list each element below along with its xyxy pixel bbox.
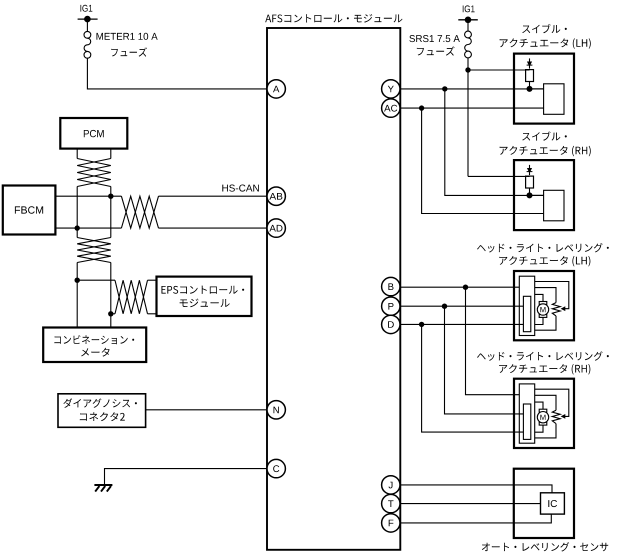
wire pin J to IC: [400, 485, 552, 493]
label auto leveling sensor: [482, 542, 608, 551]
wire motor bottom (RH): [535, 425, 543, 432]
pin AD: [267, 219, 285, 237]
AFS control module U1: [265, 14, 402, 550]
solenoid arrow (RH): [527, 165, 533, 175]
pin Y: [382, 80, 400, 98]
combination meter: [43, 328, 146, 363]
leveling connector outer (RH): [519, 384, 534, 443]
junction AC branch: [419, 105, 424, 110]
potentiometer resistor (LH): [552, 303, 560, 316]
motor block (RH): [544, 190, 564, 221]
pin T: [382, 494, 400, 512]
swivel actuator (LH) box: [514, 54, 574, 124]
wire motor top (LH): [535, 294, 543, 301]
wire CAN-H FBCM to pin AB: [55, 195, 267, 197]
label SRS1 7.5 A fuse: [409, 35, 459, 56]
node IG1 (left power feed): [78, 5, 98, 23]
pin P: [382, 297, 400, 315]
node IG1 (right power feed): [458, 5, 478, 23]
junction CAN-H / PCM pair: [108, 194, 113, 199]
junction B branch: [463, 285, 468, 290]
junction Y branch: [442, 86, 447, 91]
pin J: [382, 476, 400, 494]
wire junction to motor (RH): [530, 194, 544, 196]
pin F: [382, 514, 400, 532]
pin AC: [382, 99, 400, 117]
IC: [541, 493, 565, 514]
pin N: [267, 401, 285, 419]
twisted pair CAN bus down to meter: [77, 238, 111, 328]
wiper arm (LH): [535, 282, 569, 312]
wire D branch to leveling RH: [422, 324, 524, 432]
wire fuse SRS1 down to actuators: [467, 58, 469, 176]
wire motor bottom (LH): [535, 317, 543, 324]
twisted pair PCM to CAN bus: [77, 148, 111, 237]
junction CAN-L / EPS: [108, 311, 113, 316]
twisted pair to EPS module: [115, 280, 148, 314]
wire Y branch to swivel RH motor: [445, 89, 544, 195]
wire potentiometer bottom (RH): [535, 424, 556, 438]
wire diagnosis connector to pin N: [146, 409, 267, 411]
pin B: [382, 277, 400, 295]
motor M (RH): [537, 409, 548, 425]
wire CAN-L to EPS: [111, 313, 157, 315]
label head light leveling actuator LH: [477, 243, 609, 266]
leveling connector outer (LH): [519, 276, 534, 335]
solenoid resistor (LH): [526, 70, 534, 82]
PCM: [60, 118, 127, 149]
wire solenoid to motor junction (RH): [529, 188, 531, 195]
motor block (LH): [544, 84, 564, 115]
junction solenoid/motor (RH): [527, 192, 533, 198]
diagnosis connector 2: [58, 394, 146, 428]
fuse METER1 10 A: [84, 31, 91, 58]
wire fuse METER1 to pin A: [87, 58, 267, 89]
wiper arm (RH): [535, 389, 569, 419]
wire P branch to leveling RH: [445, 306, 524, 414]
label swivel actuator LH: [500, 24, 591, 49]
twisted pair CAN bus to module: [121, 196, 158, 228]
fuse SRS1 7.5 A: [465, 31, 472, 58]
wire fuse branch to swivel LH solenoid: [468, 69, 530, 71]
wire IG1 to fuse METER1: [86, 19, 88, 31]
wire junction to motor (LH): [530, 88, 544, 90]
wire fuse branch to swivel RH solenoid: [468, 175, 530, 177]
wire potentiometer bottom (LH): [535, 316, 556, 330]
label HS-CAN: [222, 185, 259, 192]
pin AB: [267, 187, 285, 205]
leveling connector inner (RH): [523, 404, 530, 439]
label swivel actuator RH: [500, 131, 591, 156]
swivel actuator (RH) box: [514, 160, 574, 230]
wire pin T to IC: [400, 503, 541, 505]
auto leveling sensor box: [514, 469, 574, 538]
junction CAN-L / PCM pair: [75, 225, 80, 230]
wire pin D to leveling LH: [400, 323, 523, 325]
wire motor top (RH): [535, 402, 543, 409]
wire AC branch to swivel RH motor: [422, 108, 544, 213]
wire pin C to ground: [105, 469, 267, 485]
pin C: [267, 459, 285, 477]
label head light leveling actuator RH: [477, 351, 609, 374]
wire pin B to leveling LH: [400, 286, 519, 288]
label METER1 10 A fuse: [96, 33, 157, 57]
wire pin F to IC: [400, 514, 551, 523]
wire IG1 to fuse SRS1: [467, 20, 469, 31]
wire pin P to leveling LH: [400, 305, 523, 307]
EPS control module: [157, 277, 252, 316]
solenoid arrow (LH): [527, 58, 533, 68]
potentiometer resistor (RH): [552, 410, 560, 423]
leveling connector inner (LH): [523, 296, 530, 331]
wire B branch to leveling RH: [466, 287, 520, 395]
wire potentiometer top (LH): [535, 288, 556, 303]
ground: [94, 485, 112, 492]
solenoid resistor (RH): [526, 176, 534, 188]
pin D: [382, 315, 400, 333]
head light leveling actuator (RH) box: [514, 379, 574, 448]
junction fuse branch LH: [465, 67, 470, 72]
wire solenoid to motor junction (LH): [529, 82, 531, 89]
junction P branch: [442, 304, 447, 309]
wire pin AC to swivel LH motor: [400, 107, 544, 109]
junction CAN-H / EPS: [75, 278, 80, 283]
junction D branch: [419, 322, 424, 327]
pin A: [267, 80, 285, 98]
junction solenoid/motor (LH): [527, 86, 533, 92]
FBCM: [3, 186, 56, 235]
wire CAN-L FBCM to pin AD: [55, 227, 267, 229]
wire potentiometer top (RH): [535, 395, 556, 410]
wire pin Y to swivel LH motor: [400, 88, 544, 90]
head light leveling actuator (LH) box: [514, 271, 574, 340]
wire CAN-H to EPS: [77, 279, 156, 281]
motor M (LH): [537, 302, 548, 318]
